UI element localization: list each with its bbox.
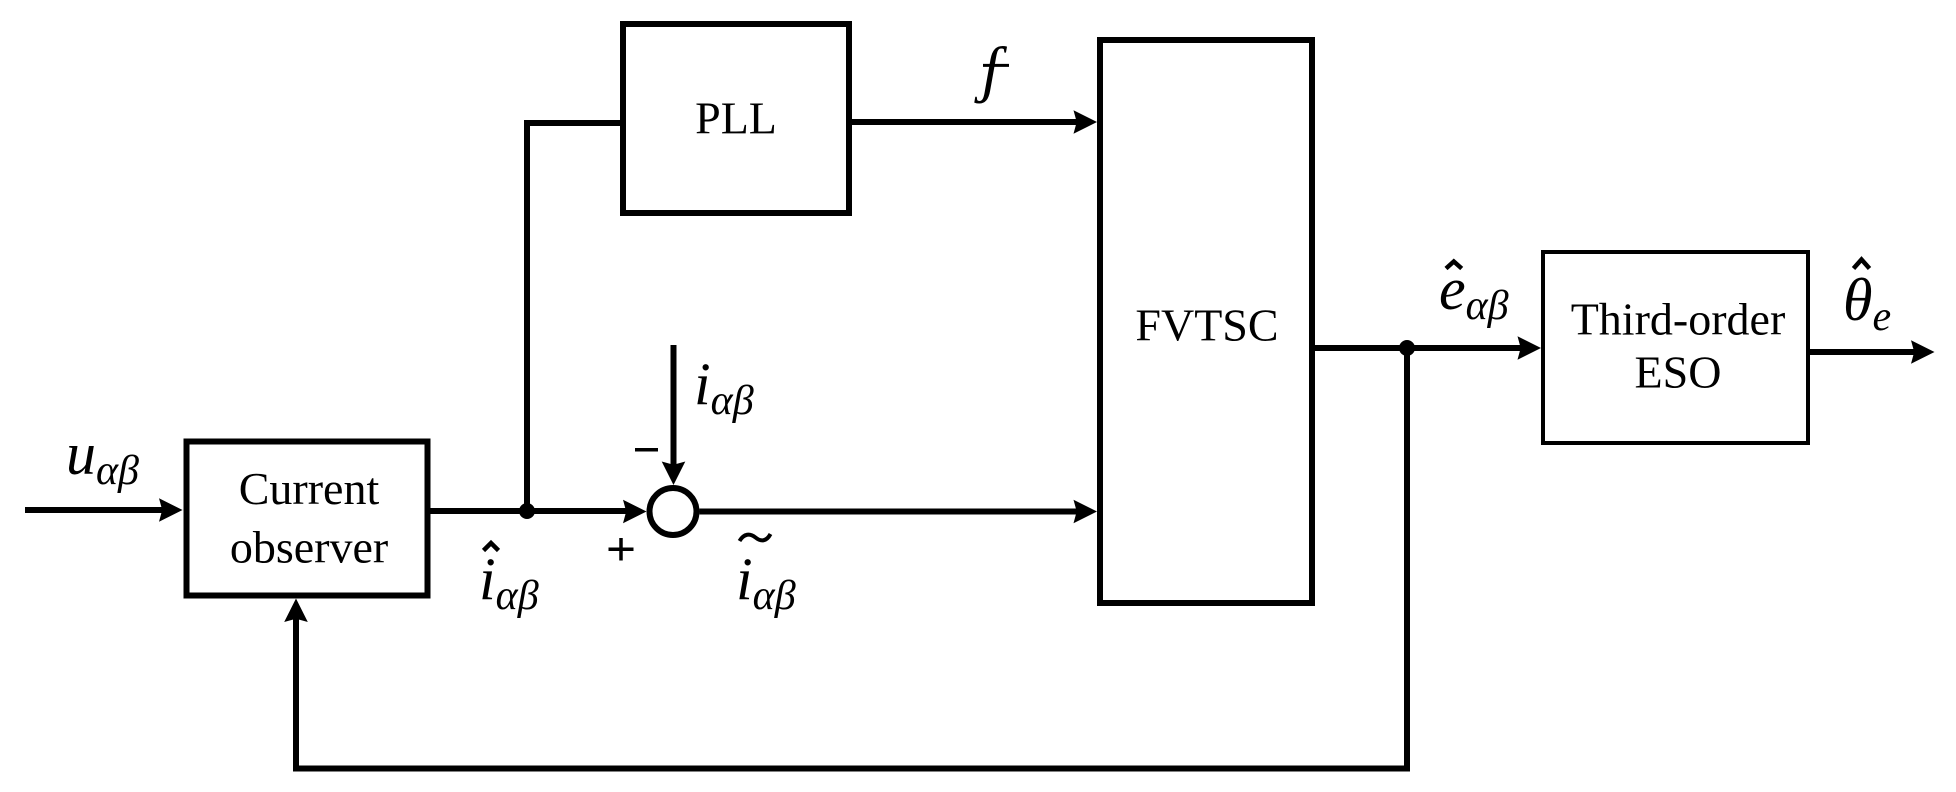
- svg-text:ESO: ESO: [1635, 347, 1722, 398]
- svg-text:Third-order: Third-order: [1571, 294, 1786, 345]
- svg-text:PLL: PLL: [695, 93, 777, 144]
- svg-text:observer: observer: [230, 522, 388, 573]
- svg-text:Current: Current: [239, 463, 380, 514]
- svg-text:FVTSC: FVTSC: [1135, 300, 1278, 351]
